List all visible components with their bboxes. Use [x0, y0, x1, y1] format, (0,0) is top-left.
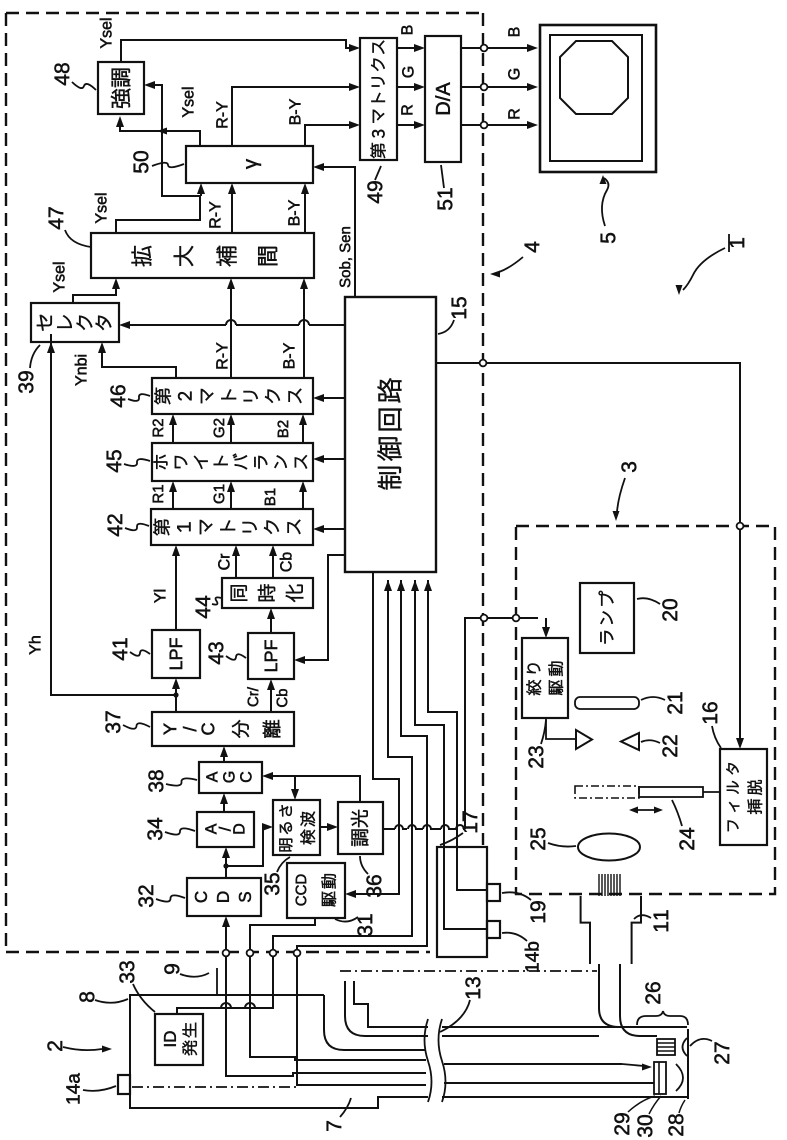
label 13 with leader	[465, 977, 480, 998]
wire w4 control to 14b	[411, 580, 419, 591]
Y/C separation block 37	[152, 712, 294, 746]
label 48	[54, 63, 69, 85]
first matrix block 42	[151, 509, 313, 545]
filter phantom position dash-dot slot	[575, 786, 639, 798]
wire circle-2 down to scope tube	[250, 957, 426, 1060]
label Cr	[218, 554, 229, 570]
label B right	[508, 27, 519, 36]
contact 14b square	[487, 921, 500, 938]
wire 47 B-Y to gamma	[304, 191, 306, 233]
ID generator block 33	[155, 1014, 203, 1065]
label 7 with leader	[327, 1121, 341, 1131]
wires R1 G1 B1 42 to 45	[172, 489, 174, 509]
label 51	[438, 188, 453, 210]
label 36 with squiggle	[366, 875, 381, 897]
label 50 with squiggle	[133, 151, 148, 173]
wire branch to brightness detector 35	[226, 827, 265, 866]
label Ynbi	[75, 355, 87, 386]
enhancement block 48	[98, 62, 144, 114]
label 17 with squiggle	[463, 811, 477, 832]
wire control-15 to LPF43	[302, 555, 345, 660]
label 26 with brace	[645, 982, 660, 1003]
video processor dashed enclosure 4	[6, 12, 483, 14]
lightguide plug 11 outline	[581, 896, 590, 964]
lightguide cord dash-dot in universal cord	[340, 970, 597, 972]
wire selector-top to 47	[73, 286, 116, 303]
label 37 with squiggle	[105, 711, 120, 733]
lightguide socket 14a	[118, 1075, 130, 1094]
selector block 39	[31, 303, 119, 342]
filter rod 24	[639, 787, 703, 797]
label 33 with squiggle	[119, 961, 134, 983]
monitor 5 outer	[540, 25, 656, 172]
wire control-15 to 42	[321, 528, 345, 530]
label Ysel left of 47	[95, 194, 107, 224]
wire w1 control to CCD-drive	[353, 572, 399, 894]
wire B-Y 46 to 47	[303, 286, 305, 378]
wire CDS to A/D with branch dot	[225, 855, 227, 878]
wire CCD-drive output to circle-2	[250, 918, 315, 949]
label B2	[278, 421, 288, 437]
wire 35 to 36 dimmer	[320, 826, 330, 828]
label 19 with squiggle	[530, 901, 545, 922]
label 34 with squiggle	[147, 818, 162, 840]
label 42 with squiggle	[107, 514, 122, 536]
wire control-15 to 46	[321, 397, 345, 399]
wire Yh selector input from junction	[51, 334, 176, 695]
white balance block 45	[152, 443, 313, 481]
label Ysel top	[100, 19, 112, 49]
label Cb	[280, 552, 292, 571]
connector body 8 outline	[130, 995, 689, 1108]
wire Cb 44 to 42	[272, 553, 274, 578]
wires 51 to monitor with node circles	[461, 47, 530, 49]
label B-Y gamma-out	[289, 99, 300, 124]
label 39 with squiggle	[18, 371, 33, 393]
aperture blade triangle left-pointing 22	[621, 733, 639, 750]
label 2 with leader arrow	[47, 1041, 62, 1051]
dimming block 36	[338, 802, 383, 854]
wire Cr 44 to 42	[235, 553, 237, 578]
label 14b with squiggle	[525, 942, 539, 972]
condenser lens 25	[578, 834, 640, 861]
label 38 with squiggle	[148, 770, 163, 792]
label 49	[367, 181, 382, 203]
Ysel wire from 47 to 48 and gamma	[116, 196, 200, 233]
label Yh	[29, 636, 41, 654]
label 47 with squiggle	[49, 207, 63, 229]
wire control-15 to 45	[321, 458, 345, 460]
label 44 with squiggle	[196, 596, 210, 618]
wire 46 Ynbi to selector	[102, 350, 176, 378]
label G left	[402, 67, 413, 77]
wire junction to LPF41	[175, 686, 177, 695]
label 21 with squiggle	[667, 692, 682, 713]
wire dimmer 36 to aperture drive with hops	[383, 825, 465, 829]
label 5 with leader	[601, 233, 616, 243]
wire gamma B-Y out to 49	[305, 125, 352, 146]
wire w3 control to lightguide line	[397, 580, 405, 591]
label 22 with squiggle	[662, 735, 677, 756]
wire 47 R-Y to gamma	[231, 191, 233, 233]
tube lines right of break	[444, 1026, 620, 1028]
wire Yl LPF41 to 42	[175, 553, 177, 630]
aperture actuator rod 21	[575, 697, 639, 709]
gamma block 50	[186, 146, 313, 183]
node circles on processor boundary	[223, 950, 230, 957]
LPF block 41	[152, 630, 200, 678]
lightguide dash-dot line from 14a	[132, 1086, 296, 1088]
lightguide cord curves into tube	[599, 964, 687, 1027]
insertion tube break marks	[428, 1018, 442, 1104]
wire AGC to Y/C	[223, 754, 225, 762]
label 3 with leader arrow	[621, 462, 636, 472]
label B-Y mid	[283, 343, 294, 368]
label 1 with leader arrow	[730, 238, 744, 247]
label 29 with leader	[614, 1113, 629, 1134]
wire 36 to AGC and branch to 35	[270, 776, 360, 802]
D/A converter block 51	[425, 36, 461, 162]
label 30 with leader	[637, 1115, 652, 1137]
monitor 5 CRT octagon screen	[560, 41, 628, 114]
observation window 28	[676, 1064, 683, 1091]
tip lightguide hatch block 27	[657, 1039, 675, 1055]
wire control-15 to selector with hops	[309, 324, 345, 326]
label R left	[401, 105, 412, 114]
label B left	[401, 25, 412, 34]
wire Y/C out to junction	[175, 695, 177, 712]
monitor 5 inner frame	[550, 35, 642, 161]
label B1	[265, 489, 275, 505]
label R-Y gamma-out	[216, 102, 227, 128]
label B-Y 47-out	[288, 200, 299, 225]
label 8 with squiggle	[79, 992, 94, 1002]
label R1	[153, 485, 163, 502]
AGC block 38	[199, 762, 262, 793]
label R right	[508, 109, 519, 118]
label 9 with leader	[164, 964, 179, 974]
label 15 with squiggle	[452, 297, 467, 318]
wire 23 to aperture blade	[546, 718, 576, 739]
label 27 with leader	[714, 1042, 729, 1063]
label 45 with squiggle	[107, 450, 122, 472]
A/D block 34	[197, 812, 254, 847]
wire CDS input from circle	[225, 924, 227, 950]
label 16 with squiggle	[702, 702, 717, 723]
label G2	[214, 419, 225, 438]
plug fiber bundle hatch	[598, 874, 600, 896]
CDS block 32	[187, 878, 261, 916]
label 46 with squiggle	[110, 385, 125, 407]
wires 49 to 51 B G R	[397, 47, 417, 49]
light source dashed enclosure 3	[516, 526, 775, 894]
label 28 with leader	[668, 1114, 683, 1135]
label 4 with leader arrow	[525, 242, 539, 253]
third matrix block 49	[360, 38, 397, 160]
wire LPF43 to 44	[270, 616, 272, 633]
label Ysel above selector	[53, 263, 65, 293]
label 11 with squiggle	[654, 910, 668, 931]
label 32 with squiggle	[138, 885, 153, 907]
label G1	[214, 485, 225, 504]
label 25 with squiggle	[530, 828, 545, 849]
wire R-Y 46 to 47	[230, 286, 232, 378]
control circuit block 15	[345, 297, 436, 572]
filter insert/remove block 16	[720, 749, 767, 845]
label Sob Sen	[339, 227, 352, 287]
LPF block 43	[248, 633, 294, 679]
connector receptacle 17	[437, 847, 487, 957]
label 20 with squiggle	[662, 599, 677, 620]
label 14a with squiggle	[66, 1073, 79, 1103]
tube elbow middle arc	[345, 981, 599, 1036]
label 31 with squiggle	[357, 914, 372, 936]
label 43 with squiggle	[208, 642, 223, 664]
label G right	[508, 69, 519, 79]
label 24 with squiggle	[679, 828, 694, 850]
tube elbow stepped top edge	[354, 981, 620, 1027]
filter travel double arrow	[634, 809, 658, 811]
wire circle-3 to ID generator with hops	[177, 957, 273, 1014]
wires R2 G2 B2 45 to 46	[172, 422, 174, 443]
aperture drive block 23	[522, 638, 568, 718]
second matrix block 46	[152, 378, 313, 414]
wire control-15 right to filter unit 16	[436, 363, 740, 741]
wire gamma R-Y out to 49	[232, 87, 352, 146]
tip end face	[687, 1029, 689, 1099]
lamp block 20	[580, 583, 634, 653]
wire A/D to AGC	[223, 801, 225, 812]
wire w2 control to ID line	[384, 580, 392, 591]
label R-Y mid	[216, 343, 227, 369]
aperture blade triangle right-pointing	[576, 730, 592, 749]
label Yl	[154, 590, 166, 603]
wire circle-4 down to lightguide line	[297, 957, 426, 1085]
tip illumination lens	[683, 1038, 688, 1056]
wire w5 control to 19	[424, 580, 432, 591]
wire Cr/Cb Y/C to LPF43	[270, 687, 272, 712]
label R-Y 47-out	[209, 202, 220, 228]
wire Sob Sen from control 15 to gamma	[321, 167, 355, 297]
synchronizer block 44	[222, 578, 313, 608]
wire 48-top to 49	[121, 40, 352, 62]
label R2	[153, 419, 163, 436]
label 41 with squiggle	[113, 638, 127, 660]
wire circle-1 down to scope tube	[226, 957, 426, 1076]
CCD drive block 31	[287, 863, 345, 918]
label Cb lower	[276, 689, 287, 707]
interpolation block 47	[91, 233, 314, 278]
tube elbow outer arc	[324, 995, 426, 1050]
brightness detection block 35	[273, 800, 320, 855]
label Cr/	[247, 687, 258, 706]
label Ysel mid	[182, 88, 194, 118]
label 23 with squiggle	[528, 746, 543, 767]
CCD package 30 with filter 29	[654, 1062, 666, 1094]
label 35 with squiggle	[264, 873, 279, 895]
contact 19 square	[487, 884, 500, 901]
